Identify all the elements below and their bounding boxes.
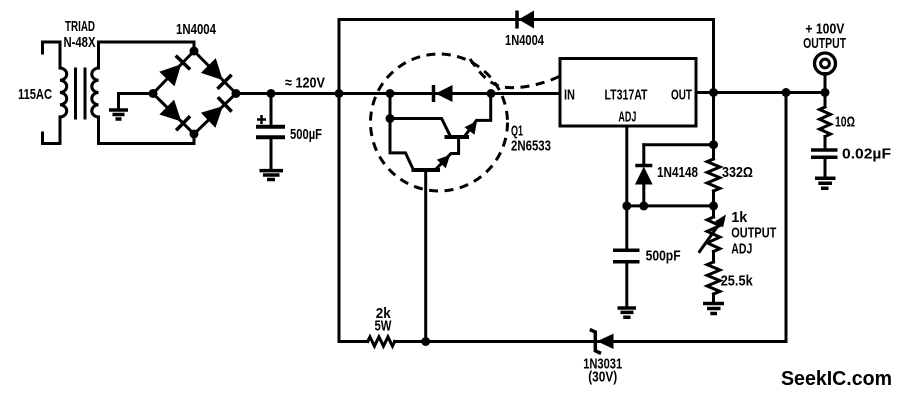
node 500uF junction	[267, 89, 276, 98]
wire Q1 collector node vertical	[390, 94, 413, 170]
wire 500pF to ground	[625, 264, 628, 307]
svg-text:25.5k: 25.5k	[721, 273, 754, 290]
resistor 25.5k	[707, 262, 720, 294]
plus sign at 500uF	[257, 115, 266, 124]
wire output terminal lead	[824, 74, 827, 93]
svg-text:500µF: 500µF	[290, 126, 322, 143]
capacitor 0.02uF plates	[811, 150, 838, 157]
transistor Q1 T1 base bar	[412, 168, 441, 172]
transformer T secondary vertical leads	[97, 42, 100, 144]
wire 0.02uF to ground	[824, 159, 827, 177]
svg-text:SeekIC.com: SeekIC.com	[781, 368, 892, 390]
wire 500uF to ground	[270, 139, 273, 169]
svg-text:332Ω: 332Ω	[722, 164, 753, 181]
transformer T primary top stub	[43, 42, 61, 53]
wire Q1 T1 emitter to T2 base	[437, 137, 459, 169]
wire OUT line	[696, 91, 825, 94]
capacitor 500pF plates	[613, 250, 640, 261]
node bottom rail junction	[421, 337, 430, 346]
wire 500uF branch	[270, 94, 273, 126]
wire Q1 T2 collector	[390, 119, 450, 136]
wire bottom rail	[339, 340, 786, 343]
resistor 10ohm	[820, 107, 831, 137]
svg-text:OUTPUT: OUTPUT	[803, 35, 846, 52]
wire 332 to ADJ node	[712, 191, 715, 217]
node Q1 emitter main	[487, 89, 496, 98]
svg-text:TRIAD: TRIAD	[65, 18, 95, 35]
node bridge bottom	[190, 130, 199, 139]
transistor Q1 T2 base bar	[445, 135, 470, 139]
wire 500pF branch	[625, 206, 628, 249]
svg-text:1N4004: 1N4004	[176, 21, 216, 38]
svg-text:ADJ: ADJ	[618, 109, 636, 126]
svg-text:500pF: 500pF	[646, 248, 681, 265]
svg-text:1N4004: 1N4004	[505, 32, 544, 49]
node OUT at right rail	[782, 88, 791, 97]
wire 1N4148 leads	[642, 145, 645, 206]
node Q1 collector branch	[386, 114, 395, 123]
node ADJ junction	[622, 201, 631, 210]
node left loop junction	[335, 89, 344, 98]
wire 25.5k to ground	[712, 294, 715, 302]
svg-text:1k: 1k	[731, 209, 748, 226]
ground bars (0.02uF)	[815, 178, 836, 188]
bridge edge wires	[153, 51, 236, 134]
wire secondary bottom to bridge	[99, 134, 195, 144]
wire right loop vertical	[712, 20, 715, 160]
resistor 2k 5W	[368, 337, 395, 346]
bridge diode D1d	[201, 97, 232, 128]
svg-text:ADJ: ADJ	[731, 241, 752, 258]
transformer T core bars	[76, 69, 86, 118]
transformer T primary vertical leads	[59, 42, 62, 144]
wire Q1 base down to bottom rail	[424, 170, 427, 342]
wire sub-loop top	[644, 143, 714, 146]
transformer T secondary winding	[92, 68, 99, 117]
dashed circle around Q1	[371, 54, 508, 191]
svg-text:1N4148: 1N4148	[657, 164, 698, 181]
dashed balloon from circle to regulator IN	[470, 59, 559, 88]
diode D3 inside Q1 circle	[434, 85, 453, 102]
transistor Q1 T2 emitter arrowhead	[464, 121, 477, 135]
zener diode 1N3031	[590, 330, 614, 354]
wire pot to 25.5k	[712, 252, 715, 263]
capacitor 500uF plates	[256, 127, 285, 138]
svg-text:0.02µF: 0.02µF	[842, 146, 891, 163]
bridge diode D1c	[159, 100, 190, 131]
wire main line	[236, 92, 560, 95]
wire secondary top to bridge	[99, 42, 195, 51]
node OUT at top loop	[709, 88, 718, 97]
node 332/1k junction	[709, 201, 718, 210]
potentiometer 1k wiper arrow line	[700, 222, 721, 252]
diode 1N4148	[635, 166, 653, 185]
svg-text:≈ 120V: ≈ 120V	[285, 75, 325, 92]
svg-text:LT317AT: LT317AT	[605, 87, 648, 104]
svg-text:OUT: OUT	[671, 87, 692, 104]
node Q1 collector main	[386, 89, 395, 98]
wire Q1 T2 emitter to main line	[464, 94, 491, 138]
wire 10 ohm leads	[824, 93, 827, 149]
output terminal circle	[815, 53, 836, 74]
svg-text:2N6533: 2N6533	[511, 138, 551, 155]
node bridge right	[232, 89, 241, 98]
svg-text:OUTPUT: OUTPUT	[731, 225, 776, 242]
node 1N4148 anode	[639, 201, 648, 210]
transistor Q1 T1 emitter arrowhead	[437, 155, 450, 168]
resistor R 332ohm	[707, 159, 720, 191]
svg-text:(30V): (30V)	[588, 369, 617, 386]
svg-text:N-48X: N-48X	[64, 34, 96, 51]
potentiometer 1k	[707, 217, 720, 252]
ground bars (500pF)	[618, 308, 637, 317]
potentiometer 1k arrowhead	[715, 215, 726, 228]
bridge diode D1b	[201, 58, 232, 89]
node sub-loop top	[709, 140, 718, 149]
wire right rail	[785, 93, 788, 342]
wire bridge left vertex to ground	[119, 94, 154, 110]
svg-text:115AC: 115AC	[18, 86, 52, 103]
wire left loop vertical	[338, 20, 341, 342]
wire ADJ pin	[625, 126, 628, 206]
node output terminal junction	[821, 88, 830, 97]
ground bars (bridge)	[109, 110, 128, 119]
bridge diode D1a	[159, 56, 190, 87]
wire top rail	[339, 18, 714, 21]
ground bars (500uF)	[260, 171, 284, 180]
svg-text:IN: IN	[564, 87, 575, 104]
svg-text:10Ω: 10Ω	[835, 114, 855, 131]
node bridge left	[149, 89, 158, 98]
regulator U1 LT317AT box	[560, 59, 696, 127]
svg-text:5W: 5W	[375, 318, 393, 335]
transformer T primary bottom stub	[43, 133, 61, 144]
ground bars (25.5k)	[703, 304, 724, 314]
transformer T primary winding	[60, 68, 67, 117]
node bridge top	[190, 47, 199, 56]
wire ADJ node horizontal	[627, 204, 714, 207]
diode 1N4004 top rail	[517, 11, 534, 29]
